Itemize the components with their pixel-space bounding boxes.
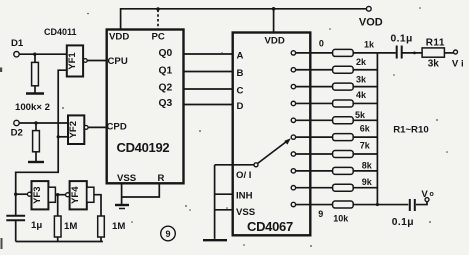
svg-text:R1~R10: R1~R10 (393, 124, 428, 135)
svg-text:V i: V i (452, 59, 464, 70)
svg-text:CPU: CPU (108, 56, 128, 67)
svg-text:YF4: YF4 (70, 186, 81, 204)
svg-text:V: V (421, 189, 428, 200)
svg-text:Q3: Q3 (159, 98, 173, 109)
svg-text:0.1μ: 0.1μ (392, 217, 414, 228)
svg-text:1M: 1M (64, 221, 77, 232)
svg-text:YF3: YF3 (32, 186, 43, 203)
svg-text:VDD: VDD (109, 32, 129, 43)
svg-text:D: D (237, 101, 244, 112)
svg-text:9: 9 (318, 209, 323, 219)
svg-text:CD4067: CD4067 (247, 219, 293, 234)
svg-text:R11: R11 (426, 38, 445, 49)
svg-text:0: 0 (319, 39, 324, 49)
svg-text:10k: 10k (333, 214, 349, 224)
svg-text:2k: 2k (356, 57, 367, 67)
svg-text:O/ I: O/ I (236, 170, 252, 181)
svg-text:Q0: Q0 (159, 48, 173, 59)
svg-text:1M: 1M (112, 221, 125, 232)
svg-text:VSS: VSS (236, 207, 256, 218)
svg-text:7k: 7k (360, 140, 371, 150)
svg-text:1μ: 1μ (31, 220, 42, 231)
svg-text:9: 9 (165, 229, 170, 239)
svg-text:5k: 5k (355, 110, 366, 120)
svg-text:A: A (237, 51, 244, 62)
svg-text:3k: 3k (356, 74, 367, 84)
svg-text:CPD: CPD (107, 122, 127, 133)
svg-text:B: B (237, 68, 244, 79)
svg-text:6k: 6k (360, 123, 371, 133)
svg-text:VOD: VOD (359, 17, 383, 29)
svg-text:o: o (430, 191, 434, 198)
svg-text:VSS: VSS (117, 173, 137, 184)
svg-text:0.1μ: 0.1μ (391, 34, 413, 45)
svg-text:3k: 3k (428, 59, 440, 70)
svg-text:100k× 2: 100k× 2 (15, 102, 50, 113)
svg-text:R: R (158, 173, 165, 184)
svg-text:PC: PC (152, 32, 165, 43)
svg-text:CD4011: CD4011 (44, 27, 77, 37)
svg-text:YF1: YF1 (67, 52, 78, 70)
svg-text:4k: 4k (356, 90, 367, 100)
svg-text:Q2: Q2 (159, 83, 173, 94)
svg-text:CD40192: CD40192 (117, 140, 170, 155)
svg-text:8k: 8k (362, 160, 373, 170)
svg-text:1k: 1k (364, 40, 375, 50)
svg-text:VDD: VDD (265, 36, 285, 47)
svg-text:D1: D1 (11, 38, 24, 49)
svg-text:Q1: Q1 (159, 65, 173, 76)
svg-text:9k: 9k (362, 177, 373, 187)
svg-text:YF2: YF2 (68, 121, 79, 138)
svg-text:INH: INH (236, 191, 253, 202)
svg-text:D2: D2 (11, 127, 23, 138)
svg-text:C: C (237, 86, 244, 97)
